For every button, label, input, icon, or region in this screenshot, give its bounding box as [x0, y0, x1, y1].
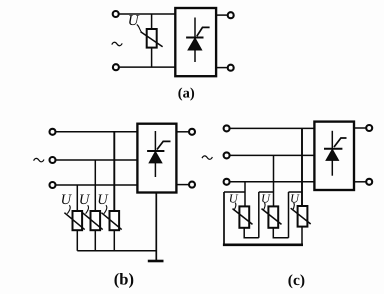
AC source symbol ~ (a) [112, 42, 122, 45]
terminal right-bottom (c) [366, 179, 372, 185]
wire phase3 (b) [56, 184, 137, 186]
wire drop phase2 to varistor RV6 [273, 155, 275, 206]
wire RV2 bottom stub [76, 230, 78, 251]
varistor RV5 body [239, 206, 249, 227]
wire right-bottom (b) [176, 184, 189, 186]
terminal phase2 (c) [224, 152, 230, 158]
wire right-top (a) [216, 14, 228, 16]
thyristor gate (b) [157, 141, 171, 149]
wire riser RV6 to stub3 [288, 192, 290, 238]
wire delta stub2 (c) [259, 191, 274, 193]
wire drop to varistor RV4 [113, 132, 115, 211]
thyristor gate (a) [197, 27, 210, 36]
wire RV4 bottom stub [113, 230, 115, 251]
module box U1 (a) [175, 8, 216, 76]
wire riser RV5 to stub2 [258, 192, 260, 238]
varistor RV1 diagonal [141, 32, 163, 47]
varistor RV1 body [147, 29, 157, 48]
varistor RV3 body [91, 211, 101, 230]
terminal phase1 (c) [224, 125, 230, 131]
label U leader curl (a) [137, 25, 142, 33]
thyristor cathode bar (c) [324, 148, 342, 150]
terminal right-top (a) [228, 12, 234, 18]
wire drop to varistor RV2 [76, 185, 78, 211]
wire drop to varistor RV3 [94, 160, 96, 211]
terminal phase1 (b) [50, 129, 56, 135]
ground bar (b) [148, 260, 164, 263]
varistor RV2 body [73, 211, 83, 230]
svg-text:U: U [290, 192, 300, 206]
svg-text:U: U [79, 192, 91, 208]
svg-text:(b): (b) [114, 270, 134, 289]
svg-text:U: U [261, 192, 271, 206]
thyristor cathode bar (a) [186, 37, 203, 39]
module box U2 (b) [137, 124, 176, 193]
varistor RV3 diagonal [82, 213, 102, 230]
svg-text:U: U [97, 192, 109, 208]
wire phase1 (b) [56, 131, 137, 133]
thyristor cathode line (b) [154, 131, 156, 177]
terminal right-top (b) [189, 129, 195, 135]
wire phase1 (c) [230, 127, 314, 129]
svg-text:U: U [128, 13, 140, 29]
svg-text:(c): (c) [288, 272, 305, 289]
varistor RV4 body [110, 211, 120, 230]
terminal right-bottom (b) [189, 182, 195, 188]
label U leader curl RV7 [293, 203, 295, 211]
thyristor triangle (c) [326, 150, 338, 161]
varistor RV6 body [268, 206, 278, 227]
wire delta stub3 (c) [289, 191, 303, 193]
wire right-top (b) [176, 131, 189, 133]
wire common bus (b) [77, 250, 156, 252]
wire top (a) [119, 13, 175, 15]
varistor RV7 diagonal [291, 208, 311, 224]
varistor RV7 body [298, 206, 308, 227]
terminal left-bottom (a) [113, 64, 119, 70]
terminal phase3 (b) [50, 182, 56, 188]
terminal phase2 (b) [50, 157, 56, 163]
wire varistor branch (a) [151, 14, 153, 67]
wire RV5 bottom elbow [244, 228, 259, 238]
label U leader curl RV6 [263, 203, 265, 211]
wire RV6 bottom elbow [273, 228, 288, 238]
wire phase3 (c) [230, 181, 314, 183]
varistor RV5 diagonal [233, 209, 253, 225]
label U leader curl RV4 [104, 205, 107, 213]
varistor RV6 diagonal [262, 209, 282, 225]
wire delta stub1 (c) [224, 191, 245, 193]
svg-text:U: U [61, 192, 73, 208]
label U leader curl RV3 [86, 205, 89, 213]
wire drop phase1 to varistor RV7 [301, 128, 303, 206]
wire phase2 (c) [230, 154, 314, 156]
terminal phase3 (c) [224, 179, 230, 185]
terminal right-top (c) [366, 125, 372, 131]
wire ground drop (b) [155, 193, 157, 262]
AC source symbol ~ (c) [202, 156, 212, 159]
wire RV3 bottom stub [94, 230, 96, 251]
wire right-top (c) [354, 127, 366, 129]
thyristor triangle (b) [149, 152, 161, 163]
wire right-bottom (c) [354, 181, 366, 183]
label U leader curl RV2 [67, 205, 70, 213]
label U leader curl RV5 [234, 203, 236, 211]
varistor RV4 diagonal [101, 213, 121, 230]
terminal right-bottom (a) [228, 65, 234, 71]
wire phase2 (b) [56, 159, 137, 161]
wire delta bottom bus (c) [223, 243, 303, 246]
wire drop phase3 to varistor RV5 [244, 182, 246, 207]
thyristor triangle (a) [188, 38, 201, 50]
thyristor gate (c) [334, 138, 347, 147]
AC source symbol ~ (b) [34, 158, 44, 161]
module box U3 (c) [314, 122, 354, 190]
thyristor cathode bar (b) [147, 150, 164, 152]
terminal left-top (a) [113, 11, 119, 17]
wire RV7 bottom stub [301, 227, 303, 245]
wire bottom (a) [119, 66, 175, 68]
varistor RV2 diagonal [64, 213, 84, 230]
wire delta left vertical (c) [223, 192, 225, 245]
svg-text:U: U [229, 192, 239, 206]
wire right-bottom (a) [216, 67, 228, 69]
thyristor cathode line (c) [331, 131, 333, 176]
thyristor cathode line (a) [194, 18, 196, 63]
svg-text:(a): (a) [178, 86, 195, 102]
